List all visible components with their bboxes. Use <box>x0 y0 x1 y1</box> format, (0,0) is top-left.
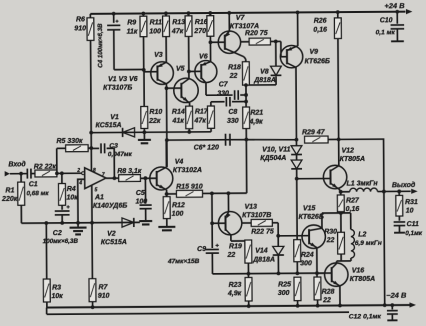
wire V12 emitter to R27 <box>339 189 341 192</box>
wire V9 base feed <box>280 41 282 56</box>
wire V5 base lead <box>166 87 181 89</box>
wire R20 to V8/V9 <box>270 40 280 42</box>
transistor V5 <box>174 78 199 103</box>
junction V9 collector/line2/R29 <box>295 138 299 142</box>
svg-text:V2: V2 <box>107 231 116 238</box>
svg-text:R6: R6 <box>76 17 85 24</box>
wire C5 to ground bar <box>145 209 147 220</box>
wire V3 collector down <box>165 84 168 167</box>
svg-text:6,9 мкГн: 6,9 мкГн <box>355 240 382 247</box>
junction R19/bias <box>247 272 251 276</box>
resistor R3 <box>43 279 50 302</box>
svg-text:R28: R28 <box>322 289 335 296</box>
junction C2 tap <box>60 221 64 225</box>
svg-text:V1 V3 V6: V1 V3 V6 <box>108 76 138 83</box>
junction V12 base node <box>295 177 299 181</box>
svg-text:10: 10 <box>406 208 414 215</box>
svg-text:R1: R1 <box>5 188 14 195</box>
wire R26 to V12 collector <box>337 39 340 167</box>
junction V13 emitter tap <box>226 191 230 195</box>
resistor R22 <box>242 222 252 224</box>
svg-text:КС515А: КС515А <box>96 122 122 129</box>
ground under R10 node <box>143 132 145 139</box>
svg-text:R8 3,1к: R8 3,1к <box>117 168 142 175</box>
svg-text:R27: R27 <box>346 198 360 205</box>
wire V9 collector down <box>295 67 298 139</box>
svg-text:47к: 47к <box>193 118 206 125</box>
op-amp A1 <box>82 168 106 189</box>
wire node to C3 <box>91 147 99 149</box>
svg-text:R20 75: R20 75 <box>245 30 268 37</box>
svg-text:V12: V12 <box>341 147 354 154</box>
zener V1 <box>123 128 135 137</box>
junction R31 tap <box>397 189 401 193</box>
wire V7 emitter to rail <box>228 13 230 31</box>
svg-text:R16: R16 <box>195 19 208 26</box>
svg-text:910: 910 <box>74 26 86 33</box>
svg-text:R15 910: R15 910 <box>176 184 203 191</box>
svg-text:R29 47: R29 47 <box>302 129 326 136</box>
wire R21 to line2 <box>245 128 247 139</box>
transistor V16 <box>325 263 349 287</box>
svg-text:R26: R26 <box>314 18 327 25</box>
wire V15 collector down <box>316 248 318 274</box>
resistor R1 <box>20 174 22 182</box>
wire L1 to output terminal <box>378 190 411 192</box>
svg-text:10к: 10к <box>66 194 78 201</box>
svg-text:R23: R23 <box>229 282 242 289</box>
wire R10 top <box>143 72 145 107</box>
junction dots on +24V rail <box>112 12 116 16</box>
resistor R20 <box>249 38 270 45</box>
resistor R30 <box>340 213 342 232</box>
svg-text:22к: 22к <box>148 118 161 125</box>
wire R18 column <box>245 85 247 107</box>
svg-text:47к: 47к <box>171 28 184 35</box>
wire V6 base lead <box>189 70 201 72</box>
junction R18/V8 node <box>244 83 248 87</box>
wire +24V rail <box>90 12 405 14</box>
junction node A <box>339 211 343 215</box>
svg-text:V1: V1 <box>110 114 119 121</box>
wire C8 to R18 column <box>232 101 246 103</box>
junction C4/V3 base <box>142 68 146 72</box>
svg-text:V10, V11: V10, V11 <box>262 146 290 153</box>
wire R5 to node <box>88 147 91 149</box>
resistor R17 <box>210 102 212 106</box>
svg-text:22: 22 <box>322 297 331 304</box>
wire V5 collector to R14 <box>189 103 191 106</box>
wire C7 node <box>206 94 233 96</box>
wire R29 to V12 collector node <box>328 138 339 140</box>
wire to R5 <box>57 147 66 149</box>
ground under R12 <box>166 219 168 227</box>
svg-text:11к: 11к <box>127 29 138 36</box>
resistor R16 <box>209 13 211 16</box>
ground under C5 <box>139 221 152 224</box>
svg-text:330: 330 <box>227 118 239 125</box>
resistor R15 <box>176 190 202 197</box>
wire R5 feedback column <box>56 148 58 173</box>
svg-text:300: 300 <box>278 290 290 297</box>
wire V8 bottom to R18 node <box>275 76 277 84</box>
node input terminal <box>5 171 10 176</box>
wire V5 emitter to R13 <box>188 36 190 78</box>
junction bootstrap/output wire <box>382 190 386 194</box>
junction R10/V1 line <box>142 130 146 134</box>
resistor R13 <box>187 13 189 16</box>
svg-text:R13: R13 <box>172 19 185 26</box>
junction R24/R25 <box>295 271 299 275</box>
svg-text:V4: V4 <box>175 159 184 166</box>
wire C7 to R18 column <box>240 94 246 96</box>
wire R25 to rail <box>297 301 299 306</box>
svg-text:4,9к: 4,9к <box>227 290 242 297</box>
wire common bus <box>21 221 139 224</box>
wire R3 to rail <box>46 302 48 308</box>
wire V14 to bias wire <box>277 255 279 273</box>
junction dots on -24V rail <box>91 305 95 309</box>
svg-text:R31: R31 <box>405 199 418 206</box>
wire bias line1 <box>91 131 211 134</box>
junction line2 tap <box>165 138 169 142</box>
resistor R11 <box>165 13 167 16</box>
wire V15 emitter up <box>321 213 323 228</box>
svg-text:V13: V13 <box>244 204 257 211</box>
svg-text:С11: С11 <box>407 221 419 228</box>
wire C1 to R2 <box>31 173 35 175</box>
junction R14 on line1 <box>187 130 191 134</box>
resistor R25 <box>294 277 301 300</box>
svg-text:+24 В: +24 В <box>384 1 405 10</box>
zener V8 <box>275 41 277 66</box>
svg-text:С6* 120: С6* 120 <box>194 144 219 151</box>
junction V15 collector / R28 / V16 base <box>315 271 319 275</box>
capacitor C9 <box>206 249 219 253</box>
svg-text:R22 75: R22 75 <box>251 228 274 235</box>
resistor R4 <box>61 173 63 183</box>
resistor R24 <box>294 240 301 262</box>
svg-text:R7: R7 <box>98 284 108 291</box>
junction R6/line1 <box>89 131 93 135</box>
svg-text:R19: R19 <box>229 243 242 250</box>
inductor L1 <box>350 188 378 192</box>
svg-text:Выход: Выход <box>392 181 416 189</box>
junction V13 bias node <box>210 191 214 195</box>
svg-text:КС515А: КС515А <box>101 239 127 246</box>
svg-text:L1 3мкГн: L1 3мкГн <box>347 180 379 187</box>
wire op-amp output <box>106 177 119 179</box>
svg-text:220к: 220к <box>1 196 18 203</box>
wire V13 node to R21 column <box>212 192 247 194</box>
wire V6 collector down <box>205 83 207 96</box>
resistor R31 <box>398 191 400 195</box>
junction R5 column tap <box>55 171 59 175</box>
zener V2 <box>122 218 134 227</box>
svg-text:R24: R24 <box>301 252 314 259</box>
wire line2 right part <box>232 138 296 141</box>
capacitor C2 <box>61 205 63 209</box>
resistor R14 <box>186 106 193 129</box>
junction V12 emitter / L1 <box>339 190 343 194</box>
svg-text:С4 100мк×6,3В: С4 100мк×6,3В <box>97 23 104 68</box>
svg-text:8: 8 <box>93 168 96 174</box>
node -24V arrow <box>409 302 416 307</box>
svg-text:V8: V8 <box>260 69 269 76</box>
resistor R10 <box>141 106 148 128</box>
wire R2 to op-amp input <box>57 172 82 174</box>
svg-text:КТ626Б: КТ626Б <box>305 58 330 65</box>
svg-text:К140УД6Б: К140УД6Б <box>93 202 127 209</box>
resistor R27 <box>337 195 344 212</box>
svg-text:41к: 41к <box>171 118 184 125</box>
svg-text:910: 910 <box>98 293 110 300</box>
svg-text:R18: R18 <box>228 64 241 71</box>
svg-text:V3: V3 <box>154 52 163 59</box>
wire node A <box>340 212 342 213</box>
junction V4 emitter node <box>165 192 169 196</box>
wire R7 to rail <box>92 302 94 308</box>
wire C3 to op-amp output <box>107 148 115 178</box>
svg-text:47мк×15В: 47мк×15В <box>167 258 200 265</box>
svg-text:4: 4 <box>78 180 82 186</box>
svg-text:R9: R9 <box>127 20 136 27</box>
svg-text:100мк×6,3В: 100мк×6,3В <box>43 238 79 245</box>
transistor V12 <box>323 165 347 189</box>
wire R10 to bias line <box>143 128 145 132</box>
svg-text:100: 100 <box>135 198 147 205</box>
capacitor C12 <box>391 305 393 309</box>
wire R28 to rail <box>317 300 319 306</box>
svg-text:С2: С2 <box>53 230 62 237</box>
capacitor C5 <box>144 178 146 203</box>
resistor R29 <box>305 136 328 143</box>
svg-text:270: 270 <box>193 28 206 35</box>
junction C3/output <box>112 176 116 180</box>
junction ground tap <box>76 221 80 225</box>
wire V13 emitter up <box>227 193 229 212</box>
svg-text:R4: R4 <box>67 186 76 193</box>
resistor R28 <box>316 273 318 277</box>
transistor V6 <box>195 60 217 82</box>
junction R21/line2 <box>244 138 248 142</box>
wire V4 emitter to R12 <box>166 190 168 197</box>
svg-text:22: 22 <box>227 252 236 259</box>
svg-text:100: 100 <box>172 211 184 218</box>
svg-text:V9: V9 <box>309 49 318 56</box>
resistor R2 <box>35 170 57 177</box>
wire V12 base lead <box>297 177 331 179</box>
wire op-amp pin5 down <box>91 185 93 222</box>
transistor V15 <box>302 225 326 249</box>
svg-text:V6: V6 <box>199 54 208 61</box>
wire common return rail <box>47 312 349 314</box>
svg-text:V5: V5 <box>176 66 185 73</box>
diode V11 <box>296 155 298 160</box>
svg-text:V15: V15 <box>303 205 316 212</box>
svg-text:0,1 мк: 0,1 мк <box>376 29 396 36</box>
wire V16 base lead <box>317 272 332 274</box>
wire V7 base lead <box>210 41 224 43</box>
junction C5 tap <box>143 176 147 180</box>
wire R23 to rail <box>248 301 250 306</box>
svg-text:7: 7 <box>102 172 105 178</box>
junction R18/C8 <box>244 100 248 104</box>
resistor R7 <box>89 279 96 302</box>
resistor R23 <box>247 274 249 278</box>
svg-text:0,047мк: 0,047мк <box>108 151 133 158</box>
junction R1 tap <box>19 172 23 176</box>
wire V16 emitter to rail <box>339 286 341 305</box>
wire V6 emitter to R16 <box>209 36 211 61</box>
wire R7 column <box>91 223 93 279</box>
diode V10 <box>295 140 297 146</box>
resistor R8 <box>119 175 141 182</box>
wire C4 to V3 base column <box>114 68 144 70</box>
resistor R21 <box>243 107 250 128</box>
svg-text:С5: С5 <box>136 190 145 197</box>
wire R21 column to V13 node <box>245 140 247 194</box>
svg-text:R30: R30 <box>324 229 337 236</box>
svg-text:КТ3102А: КТ3102А <box>173 167 202 174</box>
wire C9 column <box>211 193 213 248</box>
wire V4 emitter to R15 <box>167 193 177 195</box>
svg-text:R11: R11 <box>150 19 162 26</box>
junction V3 collector / V5 base <box>165 86 169 90</box>
wire op-amp pin3 feed <box>78 179 85 223</box>
resistor R12 <box>163 197 170 219</box>
wire L1 left <box>341 191 350 193</box>
resistor R18 <box>242 62 249 85</box>
junction R4 tap <box>60 171 64 175</box>
wire C8 node <box>211 101 225 103</box>
resistor R19 <box>245 240 252 263</box>
junction R26/R29/V12 <box>337 138 341 142</box>
wire line2 (C6 node) <box>167 139 233 141</box>
transistor V9 <box>280 45 303 68</box>
svg-text:С7: С7 <box>219 81 229 88</box>
transistor V7 <box>218 31 244 57</box>
svg-text:22: 22 <box>326 237 335 244</box>
junction R3 tap <box>44 221 48 225</box>
capacitor C7 <box>235 90 239 100</box>
wire C2 to common <box>61 215 63 223</box>
wire V7 collector to R18 <box>244 57 246 60</box>
junction V7 base tap <box>209 40 213 44</box>
svg-text:R17: R17 <box>195 109 209 116</box>
wire V13 collector down <box>230 235 232 241</box>
svg-text:С9: С9 <box>197 246 206 253</box>
svg-text:КТ3107В: КТ3107В <box>242 212 271 219</box>
junction V13 base tap <box>210 221 214 225</box>
svg-text:С1: С1 <box>29 181 38 188</box>
capacitor C10 <box>396 12 398 24</box>
wire node B <box>340 254 342 261</box>
wire V3 emitter to R11 <box>165 37 167 63</box>
wire V4 collector up <box>165 140 167 167</box>
wire -24V rail <box>47 305 410 308</box>
svg-text:КТ805А: КТ805А <box>340 156 365 163</box>
capacitor C3 <box>101 143 105 153</box>
svg-text:V14: V14 <box>255 248 268 255</box>
wire V3 base lead <box>144 71 158 73</box>
resistor R5 <box>66 145 88 152</box>
svg-text:V16: V16 <box>352 267 365 274</box>
wire V13 base lead <box>212 222 225 224</box>
svg-text:КТ3107Б: КТ3107Б <box>103 84 132 91</box>
wire V4 base lead <box>140 177 156 179</box>
wire C9 to bias wire <box>211 253 213 274</box>
svg-text:R10: R10 <box>149 109 162 116</box>
junction V14/bias wire <box>277 272 281 276</box>
svg-text:0,16: 0,16 <box>313 27 327 34</box>
wire R22 to V14 column <box>272 222 278 224</box>
svg-text:0,68 мк: 0,68 мк <box>26 190 49 197</box>
ground G2 <box>77 223 79 227</box>
transistor V3 <box>151 62 174 85</box>
svg-text:R12: R12 <box>172 202 185 209</box>
svg-text:L2: L2 <box>358 232 366 239</box>
junction V15 base tap <box>276 234 280 238</box>
svg-text:А1: А1 <box>94 194 104 201</box>
capacitor C4 <box>113 14 115 23</box>
svg-text:330: 330 <box>217 90 229 97</box>
wire R17 to line1 <box>210 128 212 131</box>
resistor R9 <box>142 13 144 16</box>
capacitor C11 <box>398 216 400 221</box>
wire V15 base lead <box>278 235 309 237</box>
wire diode column to R24 <box>296 179 298 240</box>
wire R19 to bias wire <box>247 263 249 274</box>
svg-text:5: 5 <box>95 187 98 193</box>
wire bootstrap corner to output <box>339 139 385 305</box>
svg-text:КТ626Б: КТ626Б <box>298 214 323 221</box>
wire diode chain to V12 base node <box>296 169 298 179</box>
wire bias bus <box>212 272 324 275</box>
svg-text:0,1мк: 0,1мк <box>405 230 423 237</box>
node output arrow <box>411 189 418 194</box>
svg-text:R5 330к: R5 330к <box>56 138 83 145</box>
transistor V13 <box>218 211 242 235</box>
zener V14 <box>273 246 284 255</box>
resistor R26 <box>337 12 339 18</box>
junction R7 tap <box>90 221 94 225</box>
svg-text:V7: V7 <box>236 15 246 22</box>
svg-text:100: 100 <box>149 29 161 36</box>
inductor L2 <box>350 213 352 229</box>
svg-text:10к: 10к <box>51 293 63 300</box>
svg-text:0,16: 0,16 <box>346 206 360 213</box>
svg-text:КТ805А: КТ805А <box>350 276 375 283</box>
wire R15 to V13 node <box>203 192 212 194</box>
wire R3 column <box>45 223 47 279</box>
svg-text:С10: С10 <box>380 17 393 24</box>
wire V9 emitter to rail <box>297 12 299 46</box>
svg-text:R21: R21 <box>250 110 263 117</box>
capacitor C6 <box>225 134 229 146</box>
wire V7 to R20 <box>241 41 249 43</box>
junction R18/C7 <box>244 93 248 97</box>
wire R6 to feedback node <box>90 40 93 148</box>
capacitor C1 <box>27 169 31 179</box>
svg-text:300: 300 <box>300 260 312 267</box>
svg-text:R2 22к: R2 22к <box>34 164 57 171</box>
svg-text:Вход: Вход <box>8 161 26 169</box>
wire R24 to bias wire <box>296 262 298 274</box>
resistor R6 <box>89 14 91 18</box>
svg-text:С12 0,1мк: С12 0,1мк <box>349 313 382 320</box>
wire V13 collector to R19 <box>231 240 248 242</box>
